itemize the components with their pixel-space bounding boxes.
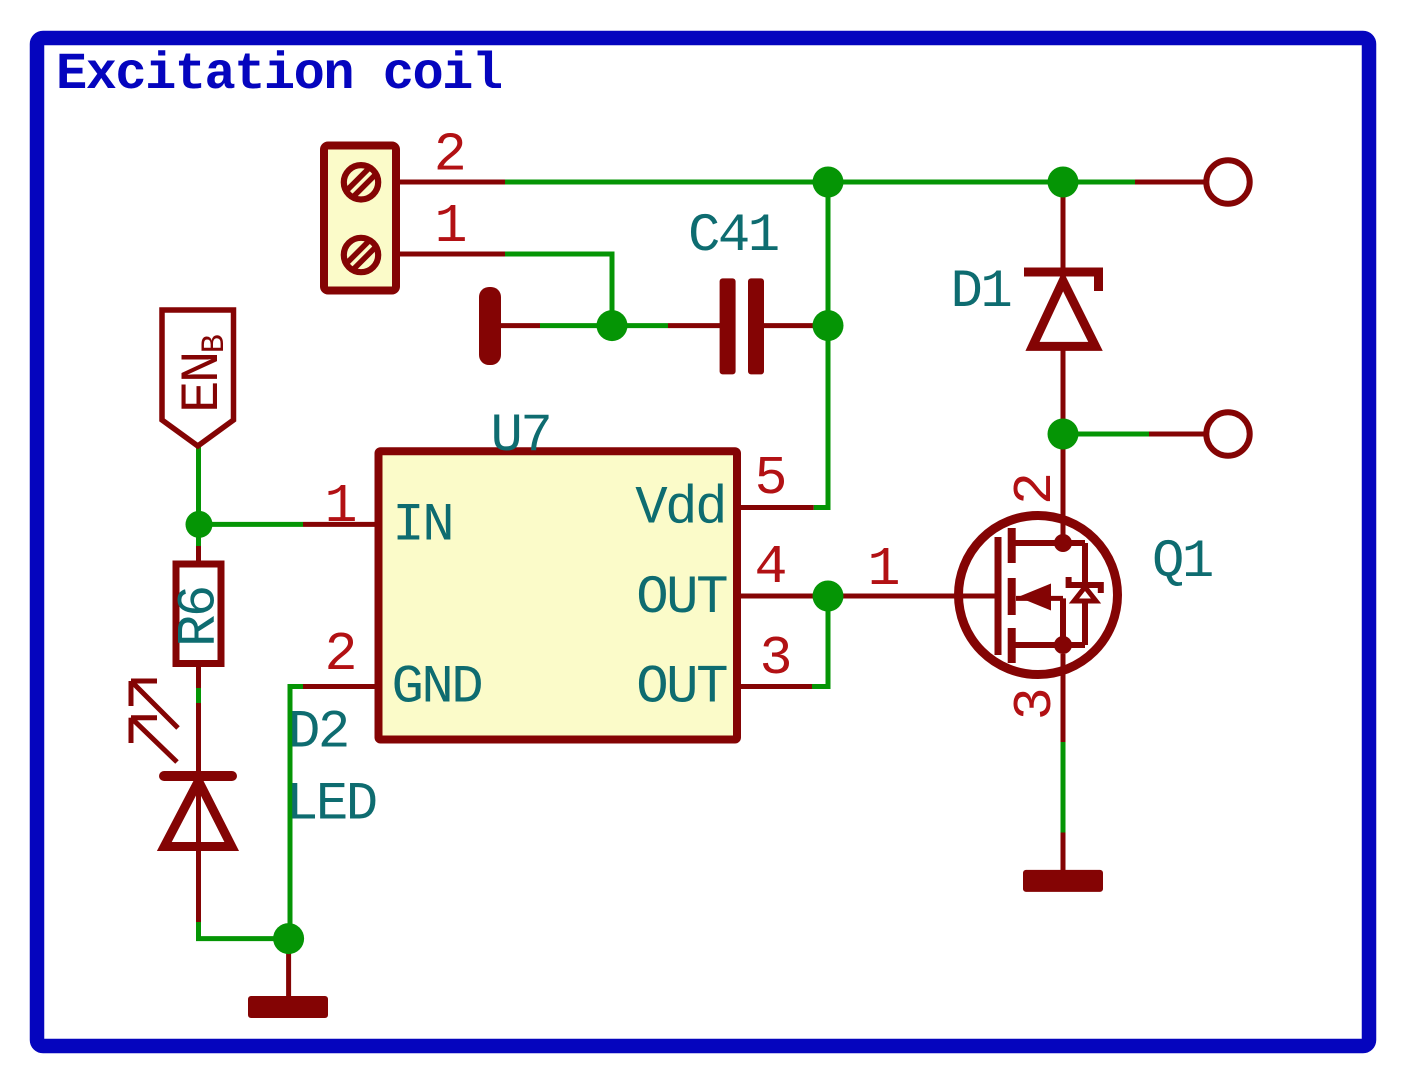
svg-text:1: 1 [324, 475, 357, 538]
svg-text:D2: D2 [288, 703, 348, 764]
svg-text:Q1: Q1 [1152, 532, 1212, 593]
svg-text:C41: C41 [688, 206, 778, 267]
svg-text:OUT: OUT [636, 657, 727, 718]
svg-text:5: 5 [754, 447, 787, 510]
svg-text:D1: D1 [951, 262, 1011, 323]
svg-text:R6: R6 [170, 587, 231, 647]
svg-text:3: 3 [1004, 687, 1067, 720]
svg-text:4: 4 [754, 536, 787, 599]
svg-text:Excitation coil: Excitation coil [56, 45, 502, 104]
svg-text:U7: U7 [491, 406, 551, 467]
svg-text:2: 2 [324, 623, 357, 686]
svg-text:1: 1 [867, 538, 900, 601]
svg-text:GND: GND [392, 657, 482, 718]
svg-text:LED: LED [286, 775, 376, 836]
svg-text:IN: IN [392, 495, 452, 556]
svg-text:2: 2 [434, 124, 467, 187]
svg-text:1: 1 [434, 195, 467, 258]
svg-text:3: 3 [759, 627, 792, 690]
svg-text:OUT: OUT [636, 568, 727, 629]
svg-text:Vdd: Vdd [635, 479, 725, 540]
svg-text:2: 2 [1004, 472, 1067, 505]
